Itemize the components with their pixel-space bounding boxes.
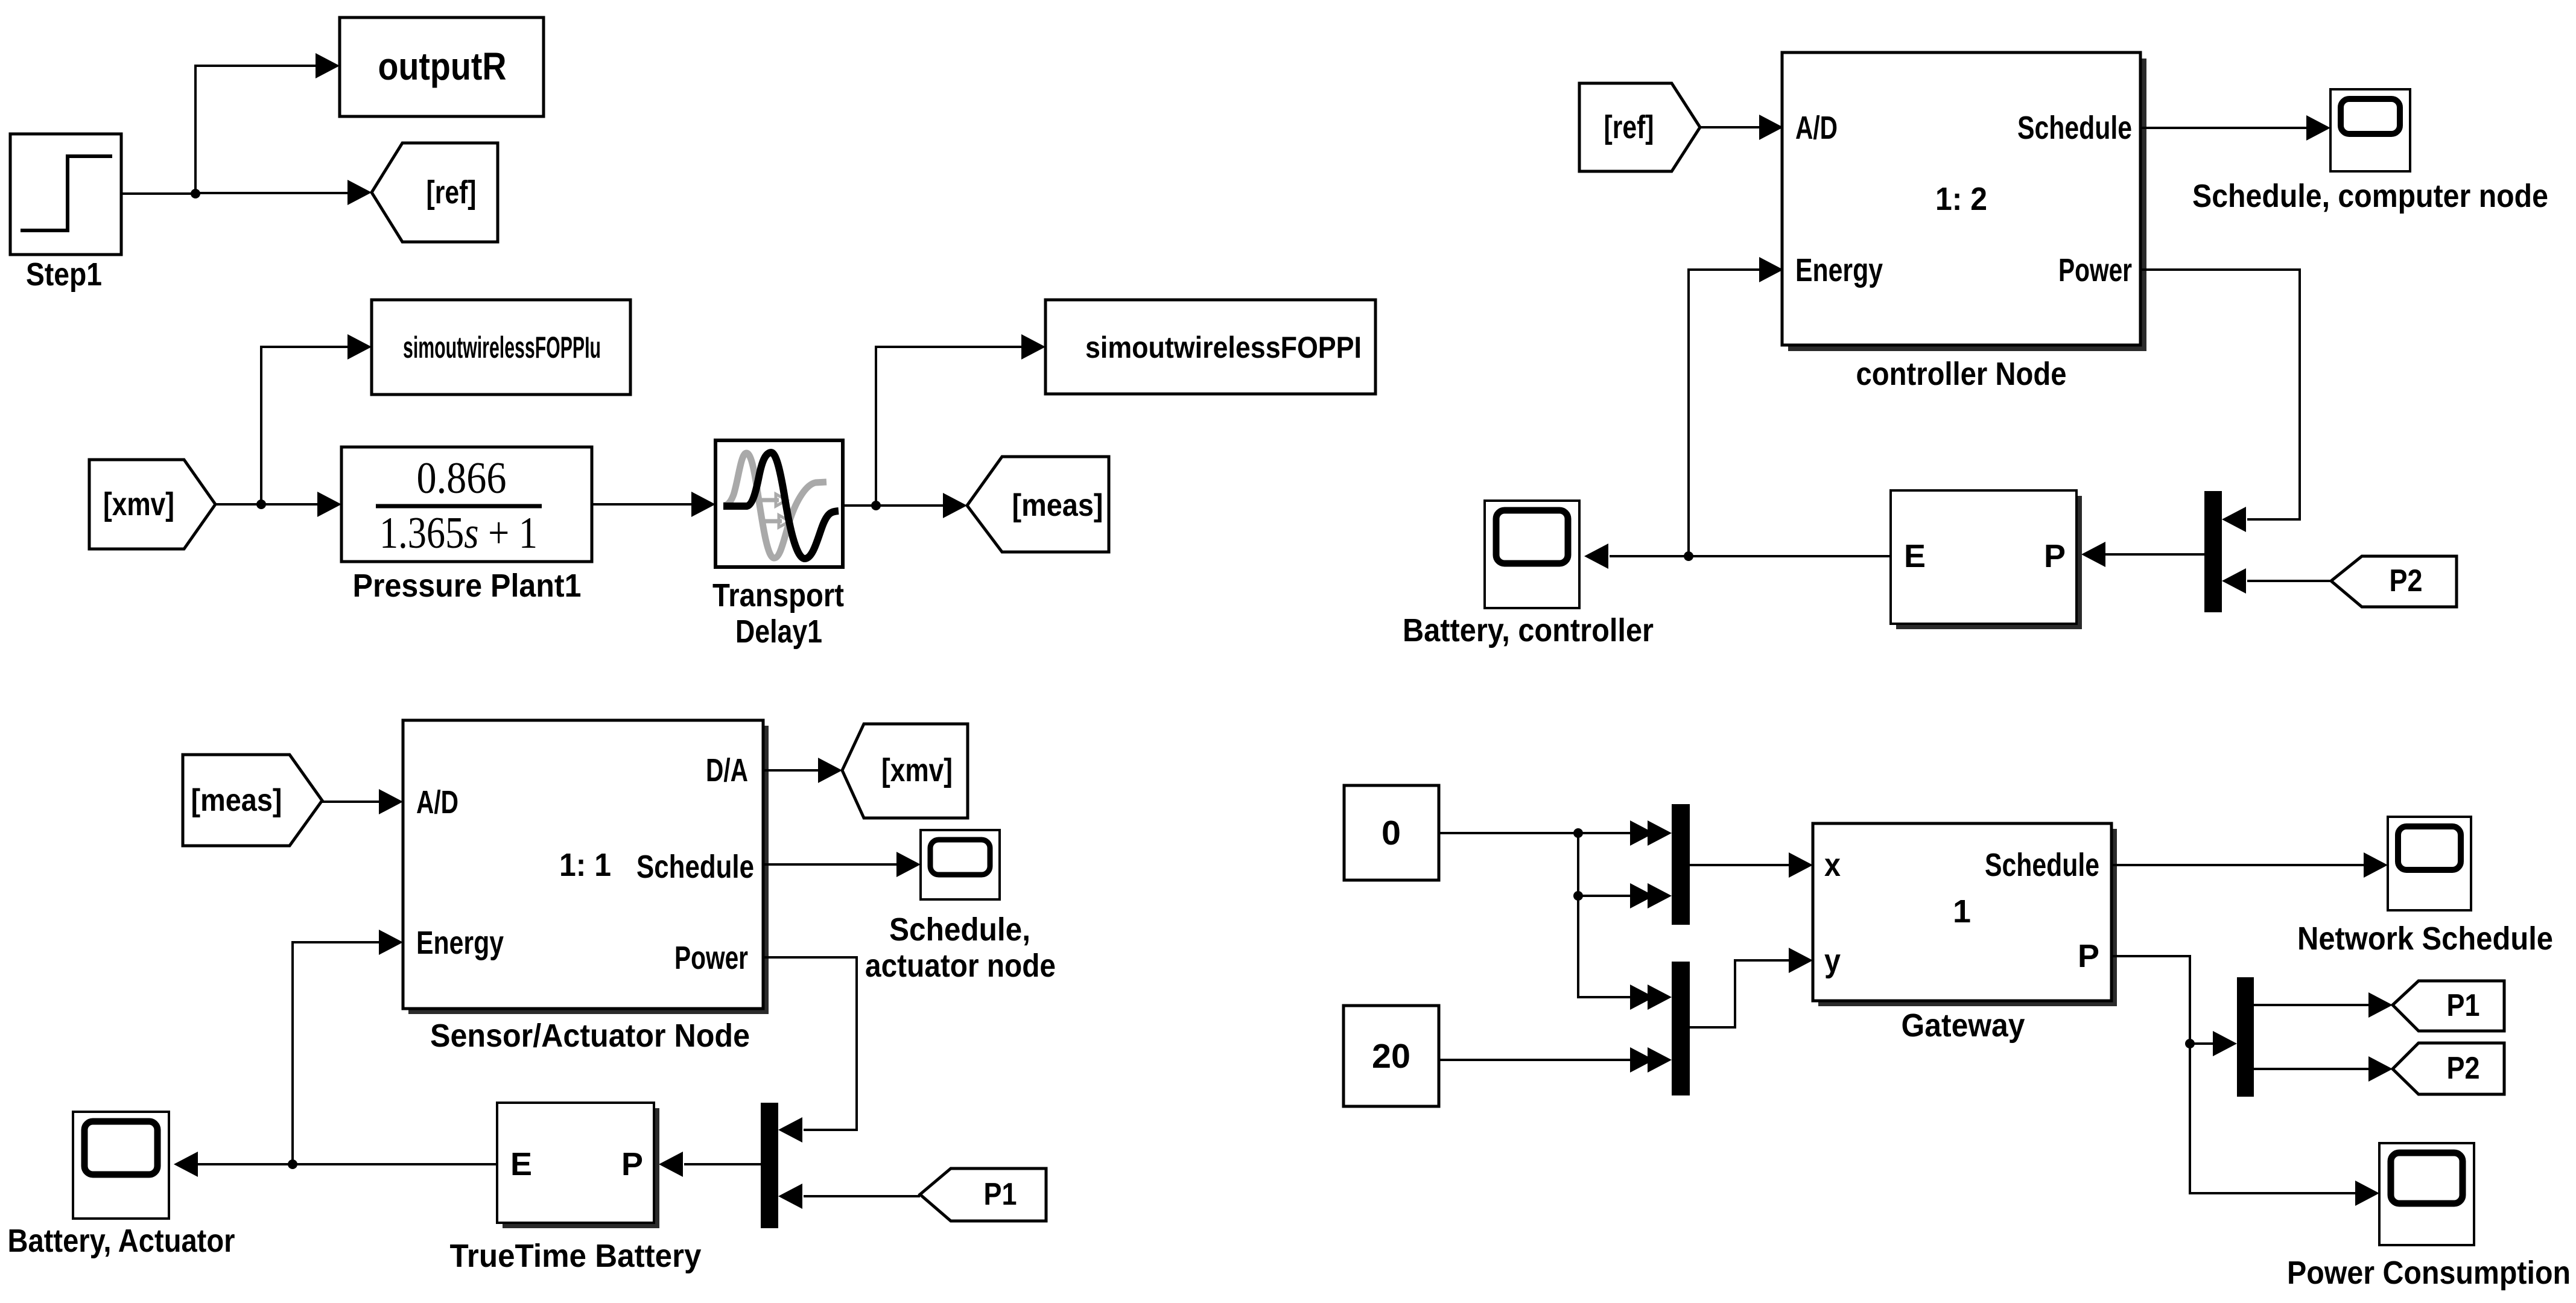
block TrueTime Battery xyxy=(497,1103,654,1223)
arrowhead into controller mux input 2 xyxy=(2222,568,2246,594)
fraction bar xyxy=(376,504,542,509)
scope Schedule, computer node xyxy=(2330,89,2410,171)
svg-text:Schedule, computer node: Schedule, computer node xyxy=(2192,178,2548,214)
wire battery E to scope and junction xyxy=(194,1163,497,1165)
from tag [ref] (controller) xyxy=(1579,83,1700,171)
svg-text:controller Node: controller Node xyxy=(1856,356,2067,392)
label Gateway xyxy=(1902,1007,2025,1044)
label Step1 xyxy=(26,256,102,293)
arrowhead into Transport Delay1 xyxy=(691,492,715,517)
svg-text:Power Consumption: Power Consumption xyxy=(2287,1255,2571,1291)
label Sensor/Actuator Node xyxy=(430,1018,750,1054)
wire controller Power to mux xyxy=(2140,270,2300,519)
svg-text:simoutwirelessFOPPI: simoutwirelessFOPPI xyxy=(1085,331,1362,364)
block controller Node xyxy=(1782,52,2140,345)
wire mux1 to gateway x xyxy=(1690,864,1790,866)
junction on delay output xyxy=(871,501,881,510)
arrowhead into [ref] goto xyxy=(347,180,372,205)
shadow of controller Node xyxy=(1788,59,2146,351)
wire junction down to mux1 input2 xyxy=(1578,833,1649,896)
arrowhead into Battery Actuator scope xyxy=(174,1152,198,1177)
transport delay icon gray sine xyxy=(723,453,826,558)
scope Battery, Actuator xyxy=(73,1112,169,1219)
wire demux out2 to P2 xyxy=(2254,1068,2370,1070)
mux2 (gateway y) xyxy=(1672,962,1690,1095)
from tag [xmv] xyxy=(89,460,215,549)
svg-text:Delay1: Delay1 xyxy=(735,613,822,650)
wire [xmv] to Pressure Plant1 xyxy=(215,503,319,506)
svg-text:Step1: Step1 xyxy=(26,256,102,293)
svg-text:[xmv]: [xmv] xyxy=(103,486,174,522)
svg-text:Battery, Actuator: Battery, Actuator xyxy=(8,1223,235,1259)
svg-text:Gateway: Gateway xyxy=(1902,1007,2025,1044)
arrowhead into computer schedule scope xyxy=(2306,115,2330,141)
text 1: 1 xyxy=(559,847,611,883)
goto tag [ref] xyxy=(372,143,498,242)
block outputR (To Workspace) xyxy=(340,17,544,116)
svg-text:1: 1 xyxy=(1953,893,1971,930)
label Transport (line 1) xyxy=(712,577,844,613)
svg-text:P1: P1 xyxy=(2447,988,2480,1023)
svg-text:0: 0 xyxy=(1382,814,1401,852)
arrowhead into outputR xyxy=(316,53,340,78)
port label Power (controller) xyxy=(2058,252,2132,288)
wire junction2 down to mux2 input1 xyxy=(1578,896,1649,997)
arrowhead into Pressure Plant1 xyxy=(317,492,341,517)
junction 1 on 0 wire xyxy=(1573,828,1583,838)
svg-text:Power: Power xyxy=(674,940,748,976)
port label D/A (sensor) xyxy=(706,752,748,788)
port label x (gateway) xyxy=(1824,847,1841,883)
arrowhead into simoutwirelessFOPPI xyxy=(1021,334,1045,360)
port label P (controller battery) xyxy=(2044,538,2066,574)
text [xmv] goto xyxy=(881,752,953,788)
wire controller Schedule to scope xyxy=(2140,127,2308,129)
arrowhead into gateway x xyxy=(1789,852,1813,878)
wire Step1 output to junction xyxy=(121,192,195,195)
port label Power (sensor) xyxy=(674,940,748,976)
port label P (gateway) xyxy=(2078,938,2099,974)
text [xmv] from xyxy=(103,486,174,522)
wire junction up to controller Energy xyxy=(1689,270,1760,556)
wire 0 to gateway mux1 input1 xyxy=(1439,832,1649,834)
wire D/A to [xmv] goto xyxy=(763,769,819,772)
svg-text:[meas]: [meas] xyxy=(1012,488,1103,523)
svg-text:P2: P2 xyxy=(2390,563,2423,598)
shadow of Gateway xyxy=(1818,829,2117,1006)
transport delay icon gray arrow 2 xyxy=(764,515,790,527)
svg-text:Sensor/Actuator Node: Sensor/Actuator Node xyxy=(430,1018,750,1054)
port label y (gateway) xyxy=(1824,943,1841,979)
goto tag P1 xyxy=(2393,981,2504,1031)
text P1 goto xyxy=(2447,988,2480,1023)
demux (P1 P2) xyxy=(2237,977,2254,1097)
svg-text:Energy: Energy xyxy=(1795,252,1883,288)
svg-text:simoutwirelessFOPPIu: simoutwirelessFOPPIu xyxy=(403,331,601,364)
text [meas] goto xyxy=(1012,488,1103,523)
wire junction to demux xyxy=(2190,1042,2214,1045)
svg-text:A/D: A/D xyxy=(416,784,458,820)
label Battery, Actuator xyxy=(8,1223,235,1259)
from tag P2 (controller) xyxy=(2331,556,2457,607)
arrowhead into simoutwirelessFOPPIu xyxy=(347,334,372,360)
wire Transport Delay1 to [meas] goto xyxy=(843,504,944,507)
wire gateway Schedule to scope xyxy=(2111,864,2365,866)
arrowhead into Battery controller scope xyxy=(1584,544,1608,569)
arrowhead into sensor A/D xyxy=(379,789,403,814)
transport delay icon black sine xyxy=(723,452,839,559)
block simoutwirelessFOPPIu (To Workspace) xyxy=(372,300,630,395)
label actuator node (line2) xyxy=(865,948,1056,984)
svg-text:20: 20 xyxy=(1372,1037,1410,1076)
block simoutwirelessFOPPI (To Workspace) xyxy=(1045,300,1375,394)
scope Power Consumption xyxy=(2379,1143,2474,1245)
wire Schedule to actuator scope xyxy=(763,863,898,866)
arrowhead into Power Consumption scope xyxy=(2355,1181,2379,1206)
arrowhead into Network Schedule scope xyxy=(2364,852,2388,878)
goto tag [xmv] xyxy=(842,724,968,818)
junction on battery E wire xyxy=(288,1159,297,1169)
mux1 (gateway x) xyxy=(1672,804,1690,925)
port label Schedule (controller) xyxy=(2017,110,2132,146)
text [ref] xyxy=(427,174,477,211)
port label Schedule (gateway) xyxy=(1985,847,2099,883)
text 1: 2 xyxy=(1935,181,1987,217)
step icon inside Step1 xyxy=(21,156,112,230)
svg-text:outputR: outputR xyxy=(378,45,507,88)
svg-text:TrueTime Battery: TrueTime Battery xyxy=(450,1238,702,1274)
arrowhead into sensor Energy xyxy=(379,930,403,955)
wire 20 to mux2 input2 xyxy=(1439,1059,1649,1061)
mux for TrueTime Battery xyxy=(761,1103,778,1228)
text 1 (gateway) xyxy=(1953,893,1971,930)
arrowhead into controller battery P xyxy=(2081,542,2105,567)
arrowhead into demux xyxy=(2213,1031,2237,1056)
wire sensor mux output to battery P xyxy=(684,1163,761,1165)
label Pressure Plant1 xyxy=(353,568,582,604)
svg-text:y: y xyxy=(1824,943,1841,979)
svg-text:A/D: A/D xyxy=(1795,110,1838,146)
svg-text:Transport: Transport xyxy=(712,577,844,613)
svg-text:Battery, controller: Battery, controller xyxy=(1403,612,1654,648)
svg-text:Schedule: Schedule xyxy=(2017,110,2132,146)
label Schedule, computer node xyxy=(2192,178,2548,214)
block Transport Delay1 xyxy=(715,440,843,567)
svg-text:1: 2: 1: 2 xyxy=(1935,181,1987,217)
arrowhead into [xmv] goto xyxy=(818,758,842,783)
shadow of controller battery xyxy=(1896,496,2082,629)
arrowhead into controller mux input 1 xyxy=(2222,507,2246,532)
port label Energy (controller) xyxy=(1795,252,1883,288)
wire gateway P down to demux xyxy=(2111,956,2356,1193)
arrowhead into mux2 input1 xyxy=(1630,984,1672,1010)
label Delay1 (line 2) xyxy=(735,613,822,650)
wire junction to [ref] goto xyxy=(195,192,349,194)
svg-text:1.365s + 1: 1.365s + 1 xyxy=(379,509,538,558)
label Schedule, (line1) xyxy=(889,911,1030,948)
from tag [meas] xyxy=(183,755,322,846)
wire junction up to Energy xyxy=(293,942,380,1164)
arrowhead into controller Energy xyxy=(1759,257,1783,282)
arrowhead into [meas] goto xyxy=(943,493,967,518)
block Constant 0 xyxy=(1344,785,1439,880)
junction on xmv wire xyxy=(256,499,266,509)
arrowhead into P2 goto xyxy=(2368,1056,2393,1082)
arrowhead into mux1 input2 xyxy=(1630,883,1672,908)
arrowhead into mux2 input2 xyxy=(1630,1047,1672,1073)
text P2 goto xyxy=(2447,1051,2480,1086)
wire junction up to outputR xyxy=(195,66,316,194)
svg-text:E: E xyxy=(510,1146,532,1182)
block Sensor/Actuator Node xyxy=(403,720,763,1009)
port label P (truetime) xyxy=(621,1146,643,1182)
svg-text:[xmv]: [xmv] xyxy=(881,752,953,788)
block controller battery (E P) xyxy=(1891,490,2076,624)
wire Power down to battery mux xyxy=(763,957,857,1130)
label Power Consumption xyxy=(2287,1255,2571,1291)
port label A/D (controller) xyxy=(1795,110,1838,146)
wire junction up to simoutwirelessFOPPIu xyxy=(261,347,349,504)
arrowhead into controller A/D xyxy=(1759,115,1783,140)
arrowhead into P1 goto xyxy=(2368,992,2393,1018)
svg-text:P1: P1 xyxy=(984,1177,1017,1212)
svg-text:0.866: 0.866 xyxy=(417,454,507,503)
arrowhead into gateway y xyxy=(1789,948,1813,973)
arrowhead into mux1 input1 xyxy=(1630,820,1672,846)
label controller Node xyxy=(1856,356,2067,392)
wire mux2 to gateway y xyxy=(1690,960,1790,1027)
arrowhead into battery P xyxy=(659,1152,683,1177)
denominator 1.365s + 1 xyxy=(379,509,538,558)
goto tag [meas] xyxy=(967,457,1109,552)
wire junction up to simoutwirelessFOPPI xyxy=(876,347,1023,506)
svg-text:Pressure Plant1: Pressure Plant1 xyxy=(353,568,582,604)
block Step1 (step source) xyxy=(10,134,121,255)
svg-text:[ref]: [ref] xyxy=(1604,109,1654,145)
numerator 0.866 xyxy=(417,454,507,503)
wire controller battery E to scope xyxy=(1610,555,1891,557)
svg-text:P: P xyxy=(621,1146,643,1182)
block Gateway xyxy=(1813,823,2111,1001)
text 20 xyxy=(1372,1037,1410,1076)
wire controller mux output to battery P xyxy=(2104,553,2204,556)
shadow of TrueTime Battery xyxy=(503,1108,659,1228)
junction on controller E wire xyxy=(1684,551,1693,561)
text [ref] from xyxy=(1604,109,1654,145)
label Network Schedule xyxy=(2297,921,2553,957)
junction 2 on 0 wire xyxy=(1573,891,1583,901)
svg-text:Power: Power xyxy=(2058,252,2132,288)
label Battery, controller xyxy=(1403,612,1654,648)
wire Pressure Plant1 to Transport Delay1 xyxy=(592,503,693,506)
svg-text:[ref]: [ref] xyxy=(427,174,477,211)
port label E (truetime) xyxy=(510,1146,532,1182)
svg-text:x: x xyxy=(1824,847,1841,883)
svg-text:1: 1: 1: 1 xyxy=(559,847,611,883)
shadow of Sensor/Actuator Node xyxy=(408,726,769,1014)
arrowhead into sensor mux input 1 xyxy=(778,1117,802,1143)
svg-text:P: P xyxy=(2044,538,2066,574)
port label A/D (sensor) xyxy=(416,784,458,820)
svg-text:Network Schedule: Network Schedule xyxy=(2297,921,2553,957)
text [meas] from xyxy=(191,783,282,818)
svg-text:Schedule: Schedule xyxy=(636,849,754,885)
arrowhead into actuator schedule scope xyxy=(896,852,921,877)
wire demux out1 to P1 xyxy=(2254,1004,2370,1006)
text 0 xyxy=(1382,814,1401,852)
text simoutwirelessFOPPIu xyxy=(403,331,601,364)
wire [meas] to A/D xyxy=(322,801,380,803)
port label Schedule (sensor) xyxy=(636,849,754,885)
svg-text:Schedule: Schedule xyxy=(1985,847,2099,883)
svg-text:D/A: D/A xyxy=(706,752,748,788)
svg-text:Energy: Energy xyxy=(416,925,504,961)
from tag P1 xyxy=(920,1168,1046,1221)
port label Energy (sensor) xyxy=(416,925,504,961)
svg-text:P: P xyxy=(2078,938,2099,974)
transport delay icon gray arrow 1 xyxy=(761,494,787,506)
goto tag P2 xyxy=(2393,1043,2504,1094)
svg-text:E: E xyxy=(1904,538,1926,574)
junction on P wire xyxy=(2185,1039,2195,1048)
svg-text:P2: P2 xyxy=(2447,1051,2480,1086)
block Pressure Plant1 (transfer fcn) xyxy=(341,447,592,562)
junction on Step1 output xyxy=(191,189,200,198)
text simoutwirelessFOPPI xyxy=(1085,331,1362,364)
port label E (controller battery) xyxy=(1904,538,1926,574)
scope Network Schedule xyxy=(2388,817,2471,910)
scope Schedule actuator node xyxy=(921,830,1000,899)
text outputR xyxy=(378,45,507,88)
wire P1 to sensor mux input 2 xyxy=(804,1195,920,1197)
wire [ref] to controller A/D xyxy=(1700,126,1760,128)
arrowhead into sensor mux input 2 xyxy=(778,1184,802,1209)
text P2 from xyxy=(2390,563,2423,598)
svg-text:Schedule,: Schedule, xyxy=(889,911,1030,948)
wire P2 to controller mux input 2 xyxy=(2247,580,2331,582)
mux for controller battery xyxy=(2204,491,2222,612)
svg-text:actuator node: actuator node xyxy=(865,948,1056,984)
svg-text:[meas]: [meas] xyxy=(191,783,282,818)
text P1 from xyxy=(984,1177,1017,1212)
scope Battery, controller xyxy=(1485,501,1579,608)
block Constant 20 xyxy=(1344,1006,1439,1106)
label TrueTime Battery xyxy=(450,1238,702,1274)
